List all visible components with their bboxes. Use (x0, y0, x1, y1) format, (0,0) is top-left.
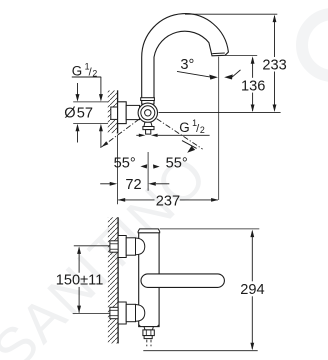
upper union neck and ball (126, 238, 135, 255)
wall hatching top (108, 91, 118, 134)
dim 136 (252, 58, 254, 78)
escutcheon flange (Ø57) (118, 102, 127, 124)
spout tube and arc (142, 14, 229, 104)
svg-text:55°: 55° (114, 155, 136, 171)
dim 72 (100, 183, 110, 185)
spout collar (141, 98, 155, 101)
lower union escutcheon (118, 302, 126, 324)
base reference line (159, 111, 281, 113)
55deg dash-dot line right (148, 113, 203, 149)
svg-text:G: G (179, 120, 189, 135)
upper union escutcheon (118, 236, 126, 258)
outlet centerline (218, 57, 220, 200)
flange top reference line (73, 101, 108, 103)
valve body connector (126, 105, 139, 119)
dim 294 (251, 232, 253, 282)
dim 150+-11 (74, 245, 110, 247)
svg-text:3°: 3° (180, 57, 194, 73)
G1/2 small dim at nipple (136, 134, 139, 136)
svg-text:G: G (72, 63, 82, 78)
wall line top (117, 90, 119, 133)
3deg right tail (232, 70, 240, 77)
flange bottom reference line (73, 123, 108, 125)
bottom outlet nut (143, 330, 154, 336)
dim 237 (118, 199, 154, 201)
body top cap (138, 229, 160, 233)
thermostat body (139, 233, 159, 327)
upper hex nut in wall (110, 241, 118, 252)
bottom outlet neck (144, 327, 153, 330)
wall hatching bottom (108, 217, 118, 343)
watermark ring top-right (302, 14, 328, 76)
lower arrows pointing up (77, 129, 79, 143)
lower union neck and ball (126, 304, 135, 321)
supply pipe in wall (111, 107, 118, 119)
55deg arc arrows (140, 164, 147, 168)
lower hex nut in wall (110, 307, 118, 318)
watermark diagonal text (0, 143, 219, 360)
svg-text:57: 57 (77, 106, 93, 122)
top extension (294) (160, 228, 260, 230)
svg-text:Ø: Ø (64, 106, 75, 122)
3deg left arrow (209, 75, 218, 80)
svg-text:150±11: 150±11 (56, 273, 104, 289)
top extension line (233) (185, 13, 277, 15)
lever handle (141, 274, 224, 288)
svg-text:55°: 55° (166, 155, 188, 171)
outlet level extension line (225, 54, 257, 56)
55deg dash-dot line left (102, 113, 148, 147)
valve joint circles (138, 103, 157, 122)
upper arrow x77 (77, 83, 79, 97)
wall extension line down (117, 135, 119, 204)
svg-text:237: 237 (156, 193, 180, 209)
hose dashed lines (146, 340, 148, 347)
centerline below valve (72 ext) (147, 152, 149, 191)
3deg right arrow (224, 74, 233, 79)
spout outlet rim (212, 52, 225, 55)
bottom outlet tail piece (144, 336, 152, 339)
svg-text:2: 2 (200, 125, 205, 135)
dim 233 (274, 16, 276, 57)
outlet nipple below valve (144, 122, 152, 126)
leader from G1/2 to flange (100, 77, 102, 97)
3deg leader line (177, 71, 210, 77)
wall line bottom (117, 217, 119, 343)
svg-text:294: 294 (240, 282, 264, 298)
floor reference line (143, 350, 257, 352)
svg-text:72: 72 (125, 177, 141, 193)
body bottom chamfers (139, 325, 141, 327)
svg-text:136: 136 (241, 78, 265, 94)
svg-text:233: 233 (262, 58, 286, 74)
